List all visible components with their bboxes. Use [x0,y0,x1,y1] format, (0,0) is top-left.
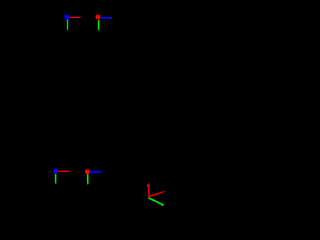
wire N1-east (red half-bond) [69,17,80,18]
wire O1-south (green half-bond) [98,20,100,31]
wire O2-east (blue half-bond) [90,171,101,173]
node O2 (red dot, bottom molecule) [85,169,90,174]
axis diagonal NE (red, fading tip) [150,191,167,197]
axis SE tip blob (green) [161,204,164,206]
axis vertical line (red, bottom-right) [148,183,150,198]
wire N1-south (green half-bond) [67,20,68,31]
node N1 (blue square, top molecule) [65,15,70,20]
node N2 (blue square, bottom molecule) [54,169,58,174]
wire O1-east (blue half-bond) [101,17,112,19]
wire N2-east (red half-bond) [58,171,69,172]
wire N2-south (green half-bond) [55,174,57,184]
node O1 (red dot, top molecule) [96,15,101,20]
axis vertical knob (red bump on left) [147,185,149,187]
wire O2-south (green half-bond) [87,174,89,185]
axis diagonal SE (green) [148,198,162,205]
